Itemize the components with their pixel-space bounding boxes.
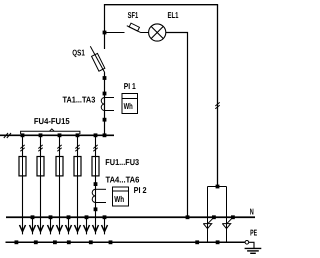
fuse FU1...FU3 (branch 5) bbox=[92, 157, 99, 176]
fuse FU4 (branch 1) bbox=[19, 157, 26, 176]
svg-text:Wh: Wh bbox=[114, 194, 124, 204]
svg-text:TA4...TA6: TA4...TA6 bbox=[106, 175, 140, 185]
fuse FU10 (branch 3) bbox=[56, 157, 63, 176]
break mark on right vertical bbox=[215, 102, 219, 108]
svg-text:PE: PE bbox=[250, 227, 257, 237]
break mark branch 5 bbox=[93, 145, 97, 151]
arrester F1 electrode diagonal bbox=[208, 217, 214, 223]
bus main horizontal bbox=[0, 134, 114, 136]
break mark branch 4 bbox=[75, 145, 79, 151]
bracket center peak bbox=[49, 129, 54, 131]
wire right vertical from top corner down to arrester bridge bbox=[217, 5, 219, 187]
node above TA4 bbox=[94, 182, 98, 186]
wire N tap 5 bbox=[104, 217, 106, 234]
svg-text:PI 1: PI 1 bbox=[124, 81, 136, 91]
node PE 2 bbox=[34, 240, 38, 244]
arrester F2 electrode diagonal bbox=[227, 217, 233, 223]
svg-text:SF1: SF1 bbox=[128, 10, 139, 20]
break mark branch 3 bbox=[57, 145, 61, 151]
node bus branch 2 bbox=[39, 133, 43, 137]
bracket over fuse group bbox=[21, 131, 80, 134]
node PE 8 bbox=[216, 240, 220, 244]
node PE 7 bbox=[195, 240, 199, 244]
disconnector QS1 blade bbox=[90, 46, 105, 72]
wire lamp to right corner and down to N bus bbox=[166, 33, 188, 218]
svg-text:EL1: EL1 bbox=[168, 10, 179, 20]
node PE 4 bbox=[67, 240, 71, 244]
feeder branch 5 wire bbox=[95, 135, 97, 234]
arrester F2 triangle bbox=[222, 224, 230, 229]
arrow feeder branch 2 bbox=[38, 225, 44, 232]
svg-text:QS1: QS1 bbox=[72, 47, 85, 57]
wire SF1 branch bbox=[105, 32, 125, 34]
node arrester F1 on N bus bbox=[212, 215, 216, 219]
breaker SF1 bbox=[127, 23, 141, 33]
feeder branch 1 wire bbox=[22, 135, 24, 234]
wire main vertical below QS1 to bus bbox=[104, 73, 106, 136]
arrester bridge bar bbox=[208, 186, 227, 188]
node SF1 branch tee bbox=[103, 31, 107, 35]
node bus branch 5 bbox=[94, 133, 98, 137]
terminal circle PE end bbox=[245, 241, 249, 245]
meter PI2 box bbox=[113, 187, 129, 206]
arrester F1 left leg bbox=[207, 187, 209, 243]
node N tap 5 bbox=[103, 215, 107, 219]
wire main vertical upper bbox=[104, 5, 106, 49]
N bus bbox=[6, 216, 255, 218]
feeder branch 2 wire bbox=[40, 135, 42, 234]
current transformer TA1...TA3 bbox=[101, 98, 114, 111]
node PE 5 bbox=[89, 240, 93, 244]
node PE 1 bbox=[15, 240, 19, 244]
feeder branch 3 wire bbox=[59, 135, 61, 234]
wire N tap 2 bbox=[50, 217, 52, 234]
feeder branch 4 wire bbox=[77, 135, 79, 234]
wire N tap 4 bbox=[86, 217, 88, 234]
arrow N tap 3 bbox=[66, 225, 72, 232]
arrow N tap 1 bbox=[30, 225, 36, 232]
svg-text:N: N bbox=[250, 206, 254, 216]
arrow feeder branch 4 bbox=[75, 225, 81, 232]
svg-text:TA1...TA3: TA1...TA3 bbox=[63, 95, 96, 105]
break mark branch 1 bbox=[20, 145, 24, 151]
node below QS1 bbox=[103, 76, 107, 80]
break mark branch 2 bbox=[38, 145, 42, 151]
node above TA1 bbox=[103, 92, 107, 96]
wire breaker to lamp bbox=[141, 32, 149, 34]
node PE 6 bbox=[109, 240, 113, 244]
wire PE terminal to ground bbox=[249, 242, 254, 248]
node below TA6 bbox=[94, 207, 98, 211]
meter PI1 box bbox=[122, 94, 138, 114]
node below TA3 bbox=[103, 118, 107, 122]
arrow feeder branch 3 bbox=[57, 225, 63, 232]
node bridge center bbox=[216, 185, 220, 189]
ground bbox=[245, 248, 262, 253]
arrow N tap 4 bbox=[84, 225, 90, 232]
arrow N tap 2 bbox=[48, 225, 54, 232]
PE bus bbox=[6, 241, 246, 243]
node N tap 2 bbox=[49, 215, 53, 219]
node arrester F2 on N bus bbox=[231, 215, 235, 219]
node bus / main vertical bbox=[103, 133, 107, 137]
lamp EL1 bbox=[149, 24, 166, 41]
fuse FU13 (branch 4) bbox=[74, 157, 81, 176]
node bus branch 4 bbox=[76, 133, 80, 137]
node bus branch 3 bbox=[58, 133, 62, 137]
break mark at bus left end bbox=[4, 133, 11, 138]
node bus branch 1 bbox=[21, 133, 25, 137]
arrester F2 right leg bbox=[226, 187, 228, 243]
svg-text:FU1...FU3: FU1...FU3 bbox=[105, 157, 139, 167]
node lamp return on N bus bbox=[186, 215, 190, 219]
node N tap 1 bbox=[31, 215, 35, 219]
arrester F1 triangle bbox=[203, 224, 211, 229]
node N tap 3 bbox=[67, 215, 71, 219]
svg-text:FU4-FU15: FU4-FU15 bbox=[34, 116, 70, 126]
node PE 3 bbox=[53, 240, 57, 244]
arrow feeder branch 5 bbox=[93, 225, 99, 232]
fuse FU7 (branch 2) bbox=[37, 157, 44, 176]
svg-text:Wh: Wh bbox=[124, 101, 133, 111]
arrow feeder branch 1 bbox=[20, 225, 26, 232]
node N tap 4 bbox=[85, 215, 89, 219]
current transformer TA4...TA6 bbox=[92, 189, 106, 202]
svg-text:PI 2: PI 2 bbox=[134, 185, 147, 195]
wire top loop horizontal bbox=[104, 4, 218, 6]
arrow N tap 5 bbox=[102, 225, 108, 232]
wire N tap 1 bbox=[32, 217, 34, 234]
wire N tap 3 bbox=[68, 217, 70, 234]
